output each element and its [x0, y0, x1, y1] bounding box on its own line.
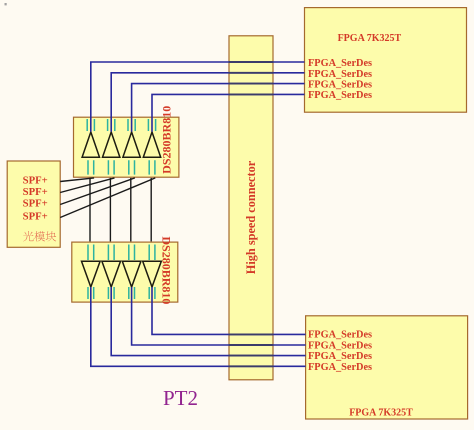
buffer A1 triangle	[82, 132, 99, 157]
FPGA U3 top FPGA 7K325T	[305, 8, 467, 113]
capacitor pair U1 in1	[87, 119, 94, 131]
wire U1 out1 to U2 in1	[89, 178, 91, 242]
wire U1 ch4 to U3 ch4	[152, 94, 305, 131]
capacitor pair U1 in4	[148, 119, 155, 131]
svg-text:High speed connector: High speed connector	[244, 160, 258, 274]
capacitor pair U1 in3	[128, 119, 135, 131]
wire SPF port1 to U1 out1	[60, 178, 94, 182]
capacitor pair U1 out4	[149, 160, 155, 174]
wire U1 out2 to U2 in2	[109, 178, 111, 242]
wire U2 ch2 to U4 ch3	[111, 287, 305, 356]
optical module box SPF	[7, 161, 60, 247]
wire U1 ch3 to U3 ch3	[132, 84, 305, 132]
speck artifact top-left	[5, 3, 7, 5]
svg-text:FPGA_SerDes: FPGA_SerDes	[308, 69, 372, 80]
svg-text:DS280BR810: DS280BR810	[160, 106, 174, 174]
capacitor pair U2 out1	[88, 287, 94, 299]
buffer A2 triangle	[103, 132, 120, 157]
pin label FPGA_SerDes U3 ch2	[308, 69, 372, 80]
pin label FPGA_SerDes U4 ch4	[308, 362, 372, 373]
capacitor pair U1 out2	[108, 160, 114, 174]
wire U2 ch4 to U4 ch1	[152, 287, 306, 334]
pin label FPGA_SerDes U4 ch3	[308, 351, 372, 362]
wire U2 ch1 to U4 ch4	[91, 287, 306, 366]
capacitor pair U1 in2	[108, 119, 115, 131]
buffer B1 triangle	[82, 261, 101, 287]
wire U1 out4 to U2 in4	[150, 178, 152, 242]
buffer B2 triangle	[102, 261, 121, 287]
node label PT2	[163, 386, 198, 410]
connector J1 High speed connector	[229, 36, 273, 380]
pin label FPGA_SerDes U4 ch1	[308, 330, 372, 341]
capacitor pair U2 out3	[129, 287, 135, 299]
value label 光模块	[23, 231, 56, 241]
svg-text:FPGA_SerDes: FPGA_SerDes	[308, 351, 372, 362]
svg-text:FPGA_SerDes: FPGA_SerDes	[308, 330, 372, 341]
pin label FPGA_SerDes U4 ch2	[308, 340, 372, 351]
svg-text:SPF+: SPF+	[23, 198, 48, 210]
wire U1 out3 to U2 in3	[130, 178, 132, 242]
wire U2 ch3 to U4 ch2	[132, 287, 306, 345]
svg-text:FPGA 7K325T: FPGA 7K325T	[349, 408, 413, 419]
pin label SPF+ port4	[23, 211, 48, 223]
FPGA U4 bottom FPGA 7K325T	[306, 316, 468, 419]
svg-text:FPGA_SerDes: FPGA_SerDes	[308, 362, 372, 373]
buffer A3 triangle	[123, 132, 140, 157]
wire U1 ch1 to U3 ch1	[91, 62, 305, 132]
buffer B3 triangle	[122, 261, 141, 287]
buffer A4 triangle	[143, 132, 160, 157]
pin label FPGA_SerDes U3 ch4	[308, 90, 372, 101]
capacitor pair U2 out4	[149, 287, 155, 299]
wire U1 ch2 to U3 ch2	[111, 73, 304, 132]
repeater U1 DS280BR810 top	[74, 106, 179, 177]
pin label FPGA_SerDes U3 ch3	[308, 79, 372, 90]
svg-text:SPF+: SPF+	[23, 186, 48, 198]
pin label FPGA_SerDes U3 ch1	[308, 58, 372, 69]
pin label SPF+ port2	[23, 186, 48, 198]
wire segment over connector bottom group	[229, 334, 274, 366]
capacitor pair U1 out1	[88, 160, 94, 174]
wire SPF port4 to U1 out4	[60, 178, 155, 218]
pin label SPF+ port3	[23, 198, 48, 210]
wire SPF port2 to U1 out2	[60, 178, 114, 193]
repeater U2 DS280BR810 bottom	[72, 236, 178, 304]
wire SPF port3 to U1 out3	[60, 178, 135, 205]
svg-text:FPGA_SerDes: FPGA_SerDes	[308, 58, 372, 69]
svg-text:SPF+: SPF+	[23, 211, 48, 223]
capacitor pair U1 out3	[129, 160, 135, 174]
capacitor pair U2 out2	[108, 287, 114, 299]
buffer B4 triangle	[143, 261, 162, 287]
svg-text:DS280BR810: DS280BR810	[160, 236, 174, 304]
capacitor pair U2 in1	[88, 245, 94, 261]
svg-text:FPGA_SerDes: FPGA_SerDes	[308, 90, 372, 101]
svg-text:PT2: PT2	[163, 386, 198, 410]
svg-text:FPGA 7K325T: FPGA 7K325T	[338, 33, 402, 44]
wire segment over connector top group	[229, 62, 274, 94]
capacitor pair U2 in4	[149, 245, 155, 261]
capacitor pair U2 in2	[108, 245, 114, 261]
pin label SPF+ port1	[23, 175, 48, 187]
svg-text:FPGA_SerDes: FPGA_SerDes	[308, 340, 372, 351]
capacitor pair U2 in3	[129, 245, 135, 261]
svg-text:FPGA_SerDes: FPGA_SerDes	[308, 79, 372, 90]
